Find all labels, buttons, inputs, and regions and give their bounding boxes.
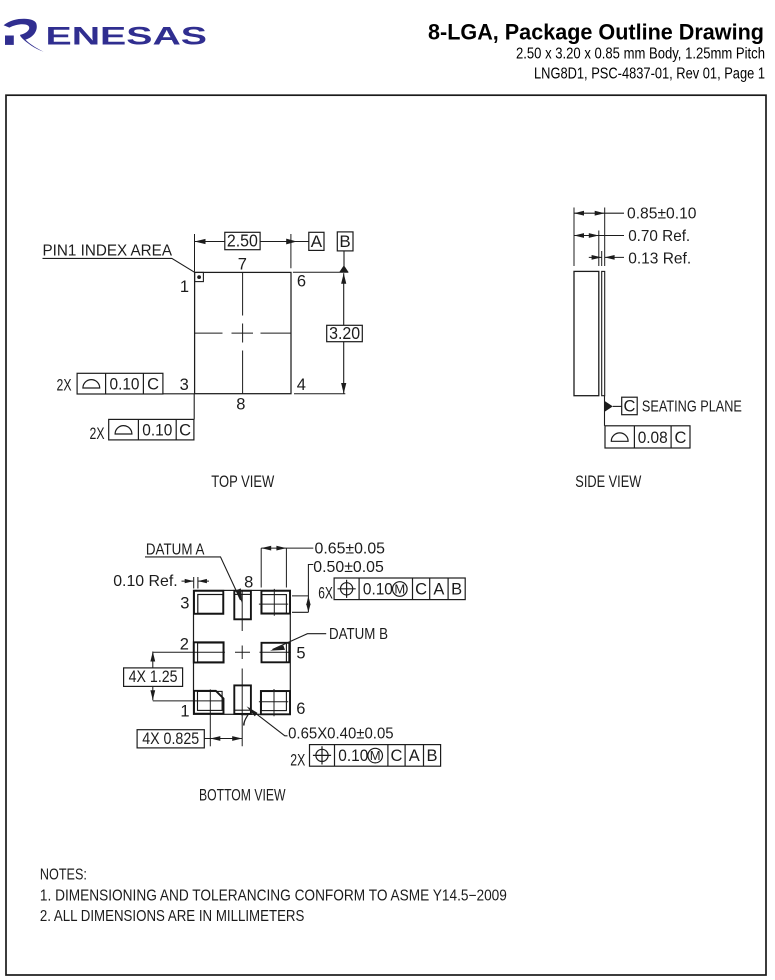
feature control frame profile 0.08 C bbox=[605, 426, 690, 448]
svg-text:0.65±0.05: 0.65±0.05 bbox=[315, 541, 386, 558]
svg-text:C: C bbox=[624, 397, 636, 415]
pad 6 cross lines bbox=[259, 689, 288, 716]
pad 4 outer (top right) bbox=[261, 591, 290, 614]
leader 0.65X0.40±0.05 bbox=[247, 706, 394, 743]
feature control frame 2X profile 0.10 C (lower) bbox=[90, 394, 195, 443]
pad 5 outer bbox=[262, 643, 290, 663]
datum box A bbox=[309, 232, 324, 251]
svg-text:C: C bbox=[415, 581, 427, 599]
svg-text:SIDE VIEW: SIDE VIEW bbox=[575, 473, 641, 491]
svg-text:7: 7 bbox=[238, 256, 247, 274]
dimension 0.85±0.10 bbox=[574, 206, 697, 223]
top view vertical centerline bbox=[242, 273, 244, 394]
datum box C bbox=[622, 397, 638, 415]
svg-text:0.65X0.40±0.05: 0.65X0.40±0.05 bbox=[288, 726, 394, 743]
pad 8 outer bbox=[234, 591, 251, 620]
svg-text:M: M bbox=[394, 582, 405, 597]
svg-text:2X: 2X bbox=[90, 425, 105, 443]
svg-text:B: B bbox=[339, 232, 350, 251]
svg-text:B: B bbox=[426, 747, 437, 765]
pad 1 outer with chamfer bbox=[194, 691, 224, 714]
svg-text:BOTTOM VIEW: BOTTOM VIEW bbox=[199, 786, 286, 804]
svg-text:0.50±0.05: 0.50±0.05 bbox=[313, 559, 384, 576]
pad 1 inner bbox=[198, 691, 223, 710]
pad 1 column centerline bbox=[209, 689, 211, 746]
svg-text:NOTES:: NOTES: bbox=[40, 867, 87, 884]
svg-text:7: 7 bbox=[240, 711, 249, 729]
svg-text:0.10 Ref.: 0.10 Ref. bbox=[113, 573, 178, 590]
svg-text:B: B bbox=[451, 581, 462, 599]
svg-text:4X 0.825: 4X 0.825 bbox=[142, 730, 199, 748]
dimension 0.70 Ref. bbox=[574, 228, 690, 245]
svg-text:0.85±0.10: 0.85±0.10 bbox=[627, 206, 697, 223]
side view terminal land strip bbox=[602, 271, 605, 395]
dimension 0.10 Ref. bbox=[113, 573, 209, 590]
svg-text:8-LGA, Package Outline Drawing: 8-LGA, Package Outline Drawing bbox=[428, 19, 764, 44]
pad 4 cross lines bbox=[259, 589, 288, 616]
Renesas logo R glyph bbox=[4, 19, 44, 52]
pad 3 inner bbox=[198, 595, 223, 614]
svg-text:2: 2 bbox=[180, 636, 189, 654]
seating plane leader line bbox=[604, 396, 606, 426]
svg-text:1. DIMENSIONING AND TOLERANCIN: 1. DIMENSIONING AND TOLERANCING CONFORM … bbox=[40, 888, 507, 905]
svg-text:1: 1 bbox=[180, 278, 189, 296]
extension line top right bbox=[293, 271, 348, 273]
pad 3 outer bbox=[194, 591, 223, 614]
svg-text:A: A bbox=[409, 747, 420, 765]
dimension 0.50±0.05 bbox=[292, 559, 384, 613]
svg-text:2.50 x 3.20 x 0.85 mm Body, 1.: 2.50 x 3.20 x 0.85 mm Body, 1.25mm Pitch bbox=[516, 46, 765, 63]
pad 8 inner line bbox=[235, 593, 250, 595]
pad 6 inner bbox=[261, 692, 286, 711]
top view horizontal centerline bbox=[195, 332, 291, 334]
svg-text:0.10: 0.10 bbox=[363, 581, 393, 599]
svg-text:0.08: 0.08 bbox=[638, 429, 668, 447]
svg-text:6: 6 bbox=[297, 273, 306, 291]
svg-text:C: C bbox=[675, 429, 687, 447]
svg-text:2.50: 2.50 bbox=[227, 231, 258, 251]
svg-text:2. ALL DIMENSIONS ARE IN MILLI: 2. ALL DIMENSIONS ARE IN MILLIMETERS bbox=[40, 908, 305, 925]
svg-text:3.20: 3.20 bbox=[329, 323, 360, 343]
svg-text:A: A bbox=[311, 232, 323, 251]
svg-text:DATUM B: DATUM B bbox=[329, 626, 388, 643]
dimension 3.20 bbox=[327, 273, 363, 393]
svg-text:0.10: 0.10 bbox=[338, 747, 368, 765]
pad 1 row centerline bbox=[153, 700, 224, 702]
svg-text:C: C bbox=[391, 747, 403, 765]
dimension 0.13 Ref. bbox=[589, 250, 691, 267]
PIN1 INDEX AREA label and leader bbox=[43, 242, 195, 272]
svg-text:3: 3 bbox=[180, 595, 189, 613]
pad 4 inner bbox=[262, 595, 287, 614]
svg-text:0.70 Ref.: 0.70 Ref. bbox=[628, 228, 690, 245]
svg-text:2X: 2X bbox=[57, 377, 72, 395]
svg-text:8: 8 bbox=[244, 573, 253, 591]
feature control frame 6X position bbox=[318, 578, 465, 602]
notes bbox=[40, 867, 507, 925]
pad 5 inner line bbox=[285, 643, 287, 662]
svg-text:0.13 Ref.: 0.13 Ref. bbox=[628, 250, 691, 267]
feature control frame 2X profile 0.10 C (upper) bbox=[57, 373, 195, 394]
bottom view horizontal centerline bbox=[153, 651, 291, 653]
dimension 4X 1.25 bbox=[124, 652, 183, 701]
svg-text:1: 1 bbox=[180, 703, 189, 721]
side view extension lines bbox=[574, 208, 605, 267]
svg-text:5: 5 bbox=[296, 644, 305, 662]
svg-text:0.10: 0.10 bbox=[142, 421, 172, 439]
pin1 index square bbox=[195, 272, 204, 281]
pin1 index dot bbox=[197, 275, 201, 279]
datum C triangle bbox=[605, 401, 613, 412]
top view package outline bbox=[195, 272, 291, 393]
pad 7 outer bbox=[234, 685, 251, 714]
datum B triangle and leader bbox=[339, 251, 348, 272]
svg-text:0.10: 0.10 bbox=[110, 375, 140, 393]
svg-text:8: 8 bbox=[236, 396, 245, 414]
pad 2 inner bbox=[198, 643, 224, 662]
svg-text:PIN1 INDEX AREA: PIN1 INDEX AREA bbox=[43, 242, 173, 259]
svg-text:2X: 2X bbox=[290, 751, 305, 769]
DATUM A label and leader bbox=[145, 542, 242, 604]
svg-text:SEATING PLANE: SEATING PLANE bbox=[642, 399, 742, 416]
svg-text:4X 1.25: 4X 1.25 bbox=[129, 668, 178, 686]
svg-text:C: C bbox=[147, 375, 159, 393]
svg-text:ENESAS: ENESAS bbox=[46, 22, 208, 50]
svg-text:6: 6 bbox=[296, 700, 305, 718]
svg-text:LNG8D1, PSC-4837-01, Rev 01, P: LNG8D1, PSC-4837-01, Rev 01, Page 1 bbox=[534, 65, 765, 82]
svg-text:TOP VIEW: TOP VIEW bbox=[211, 473, 274, 491]
svg-text:M: M bbox=[370, 748, 381, 763]
svg-text:A: A bbox=[433, 581, 444, 599]
bottom view vertical centerline bbox=[241, 591, 243, 747]
dimension 2.50 bbox=[195, 231, 309, 272]
dimension 0.65±0.05 bbox=[261, 541, 385, 588]
pad 2 outer bbox=[194, 642, 224, 662]
datum box B bbox=[337, 232, 353, 251]
dimension 4X 0.825 bbox=[137, 730, 242, 748]
DATUM B label and leader bbox=[270, 626, 388, 650]
svg-text:DATUM A: DATUM A bbox=[146, 542, 205, 559]
Renesas logo square bbox=[5, 36, 14, 45]
svg-text:C: C bbox=[179, 421, 191, 439]
bottom view body outline bbox=[194, 590, 291, 714]
svg-text:6X: 6X bbox=[318, 584, 333, 602]
feature control frame 2X position bbox=[290, 745, 440, 770]
svg-text:3: 3 bbox=[180, 376, 189, 394]
pad 6 outer bbox=[261, 691, 290, 714]
pad 7 inner line bbox=[235, 709, 250, 711]
side view body outline bbox=[574, 271, 599, 395]
svg-text:4: 4 bbox=[297, 376, 306, 394]
extension line bottom right bbox=[294, 393, 345, 395]
